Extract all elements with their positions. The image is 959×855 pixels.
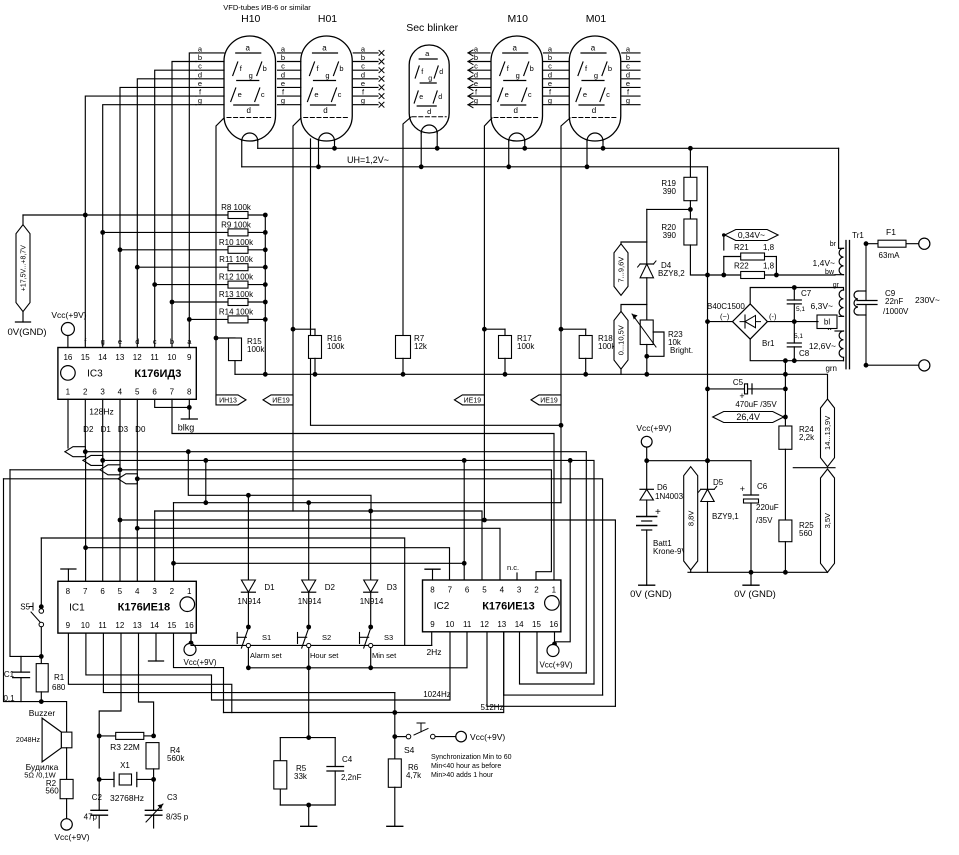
svg-text:7: 7 <box>448 586 453 595</box>
svg-text:BZY9,1: BZY9,1 <box>712 512 739 521</box>
svg-text:BZY8,2: BZY8,2 <box>658 269 685 278</box>
svg-text:13: 13 <box>133 621 142 630</box>
svg-text:a: a <box>513 44 518 53</box>
svg-text:b: b <box>608 64 612 73</box>
svg-text:9: 9 <box>66 621 71 630</box>
svg-text:g: g <box>474 96 478 105</box>
svg-text:220uF: 220uF <box>756 503 779 512</box>
svg-text:16: 16 <box>549 620 558 629</box>
svg-text:d: d <box>592 106 596 115</box>
svg-text:X1: X1 <box>120 761 130 770</box>
svg-text:C2: C2 <box>92 793 103 802</box>
svg-text:11: 11 <box>98 621 107 630</box>
svg-text:e: e <box>118 337 122 346</box>
svg-text:D1: D1 <box>264 583 275 592</box>
svg-text:g: g <box>325 71 329 80</box>
svg-text:Vcc(+9V): Vcc(+9V) <box>470 732 505 742</box>
svg-text:8: 8 <box>187 387 192 396</box>
svg-text:D2: D2 <box>83 425 94 434</box>
svg-text:1N914: 1N914 <box>298 597 322 606</box>
svg-text:Sec blinker: Sec blinker <box>406 22 458 34</box>
svg-text:b: b <box>339 64 343 73</box>
svg-text:e: e <box>505 90 509 99</box>
svg-text:1N914: 1N914 <box>360 597 384 606</box>
svg-text:8: 8 <box>66 587 71 596</box>
svg-text:12,6V~: 12,6V~ <box>809 341 836 351</box>
svg-text:Min set: Min set <box>372 651 397 660</box>
svg-text:C4: C4 <box>342 755 353 764</box>
svg-text:1,8: 1,8 <box>763 243 775 252</box>
svg-text:2: 2 <box>83 387 88 396</box>
svg-text:(~): (~) <box>720 312 730 321</box>
svg-text:D6: D6 <box>657 483 668 492</box>
svg-text:C7: C7 <box>801 289 812 298</box>
svg-text:e: e <box>361 79 365 88</box>
svg-text:D5: D5 <box>713 478 724 487</box>
svg-text:R12 100k: R12 100k <box>219 273 254 282</box>
svg-text:R9 100k: R9 100k <box>221 220 252 229</box>
svg-text:/1000V: /1000V <box>883 307 909 316</box>
svg-text:Br1: Br1 <box>762 339 775 348</box>
svg-text:63mA: 63mA <box>879 251 901 260</box>
svg-text:c: c <box>528 90 532 99</box>
svg-text:Bright.: Bright. <box>670 346 693 355</box>
svg-text:560k: 560k <box>167 754 185 763</box>
svg-text:d: d <box>439 69 443 76</box>
svg-text:1,4V~: 1,4V~ <box>813 258 835 268</box>
svg-text:5: 5 <box>135 387 140 396</box>
svg-text:33k: 33k <box>294 772 308 781</box>
svg-text:14: 14 <box>515 620 524 629</box>
svg-text:10: 10 <box>81 621 90 630</box>
svg-text:UH=1,2V~: UH=1,2V~ <box>347 155 389 165</box>
svg-text:16: 16 <box>185 621 194 630</box>
svg-text:15: 15 <box>532 620 541 629</box>
svg-text:15: 15 <box>167 621 176 630</box>
svg-text:47p: 47p <box>84 813 98 822</box>
svg-text:1: 1 <box>66 387 71 396</box>
svg-text:9: 9 <box>430 620 435 629</box>
svg-text:R3 22M: R3 22M <box>110 742 140 752</box>
svg-text:4,7k: 4,7k <box>406 771 422 780</box>
svg-text:0V (GND): 0V (GND) <box>734 589 776 600</box>
svg-text:a: a <box>591 44 596 53</box>
svg-text:F1: F1 <box>886 227 896 237</box>
svg-text:S5: S5 <box>20 603 30 612</box>
svg-text:5: 5 <box>482 586 487 595</box>
svg-text:g: g <box>249 71 253 80</box>
svg-text:g: g <box>281 96 285 105</box>
svg-text:R14 100k: R14 100k <box>219 307 254 316</box>
svg-text:+: + <box>655 507 661 518</box>
svg-text:12k: 12k <box>414 342 428 351</box>
svg-text:0V(GND): 0V(GND) <box>7 327 46 338</box>
svg-text:C5: C5 <box>733 378 744 387</box>
svg-text:a: a <box>322 44 327 53</box>
svg-text:e: e <box>583 90 587 99</box>
svg-text:e: e <box>474 79 478 88</box>
svg-text:d: d <box>323 106 327 115</box>
svg-text:g: g <box>594 71 598 80</box>
svg-text:560: 560 <box>799 529 813 538</box>
svg-text:d: d <box>438 94 442 101</box>
svg-text:d: d <box>247 106 251 115</box>
svg-text:3: 3 <box>152 587 157 596</box>
svg-text:g: g <box>548 96 552 105</box>
svg-text:10: 10 <box>445 620 454 629</box>
svg-text:26,4V: 26,4V <box>736 412 760 422</box>
svg-text:1N4003: 1N4003 <box>655 492 684 501</box>
svg-text:2,2k: 2,2k <box>799 433 815 442</box>
svg-text:390: 390 <box>663 187 677 196</box>
svg-text:e: e <box>238 90 242 99</box>
svg-text:H01: H01 <box>318 13 337 25</box>
svg-text:b: b <box>198 53 202 62</box>
svg-text:2Hz: 2Hz <box>426 647 441 657</box>
svg-text:B40C1500: B40C1500 <box>707 302 745 311</box>
svg-text:c: c <box>338 90 342 99</box>
svg-text:7: 7 <box>170 387 175 396</box>
svg-text:bl: bl <box>824 318 830 327</box>
svg-text:IC3: IC3 <box>87 369 103 380</box>
svg-text:D1: D1 <box>101 425 112 434</box>
svg-text:2: 2 <box>534 586 539 595</box>
svg-text:6,3V~: 6,3V~ <box>811 301 833 311</box>
svg-text:100k: 100k <box>327 342 345 351</box>
svg-text:C8: C8 <box>799 349 810 358</box>
svg-text:grn: grn <box>825 364 837 373</box>
svg-text:1024Hz: 1024Hz <box>423 690 451 699</box>
svg-text:16: 16 <box>63 353 72 362</box>
svg-text:10: 10 <box>167 353 176 362</box>
svg-text:g: g <box>516 71 520 80</box>
svg-text:+17,5V...+8,7V: +17,5V...+8,7V <box>21 245 28 291</box>
svg-text:14...13,9V: 14...13,9V <box>823 416 832 450</box>
svg-text:R1: R1 <box>54 673 65 682</box>
svg-text:Vcc(+9V): Vcc(+9V) <box>51 310 86 320</box>
svg-text:0,34V~: 0,34V~ <box>738 230 765 240</box>
svg-text:12: 12 <box>115 621 124 630</box>
svg-text:2,2nF: 2,2nF <box>341 773 362 782</box>
svg-text:VFD-tubes ИВ-6 or similar: VFD-tubes ИВ-6 or similar <box>223 3 311 12</box>
svg-text:8/35 p: 8/35 p <box>166 813 189 822</box>
svg-text:0,1: 0,1 <box>3 694 15 703</box>
svg-text:D3: D3 <box>118 425 129 434</box>
svg-text:11: 11 <box>150 353 159 362</box>
svg-text:b: b <box>281 53 285 62</box>
svg-text:R11 100k: R11 100k <box>219 255 254 264</box>
svg-text:g: g <box>428 76 432 83</box>
svg-text:g: g <box>101 337 105 346</box>
svg-text:390: 390 <box>663 231 677 240</box>
svg-text:Krone-9V: Krone-9V <box>653 547 687 556</box>
svg-text:S2: S2 <box>322 633 331 642</box>
svg-text:(-): (-) <box>769 312 777 321</box>
svg-text:12: 12 <box>133 353 142 362</box>
svg-text:H10: H10 <box>241 13 260 25</box>
svg-text:e: e <box>198 79 202 88</box>
svg-text:7...9,6V: 7...9,6V <box>617 257 626 283</box>
svg-text:e: e <box>314 90 318 99</box>
svg-text:blkg: blkg <box>178 423 195 433</box>
svg-text:M01: M01 <box>586 13 607 25</box>
svg-text:5: 5 <box>118 587 123 596</box>
svg-text:b: b <box>170 337 174 346</box>
svg-text:Hour set: Hour set <box>310 651 339 660</box>
svg-text:S4: S4 <box>404 745 415 755</box>
svg-text:bw: bw <box>825 269 835 276</box>
svg-text:4: 4 <box>135 587 140 596</box>
svg-text:ИЕ19: ИЕ19 <box>540 398 558 405</box>
svg-text:b: b <box>626 53 630 62</box>
svg-text:32768Hz: 32768Hz <box>110 793 144 803</box>
svg-text:R22: R22 <box>734 262 749 271</box>
svg-text:d: d <box>135 337 139 346</box>
svg-text:ИЕ19: ИЕ19 <box>272 398 290 405</box>
svg-text:b: b <box>530 64 534 73</box>
svg-text:R21: R21 <box>734 243 749 252</box>
svg-text:c: c <box>261 90 265 99</box>
svg-text:4: 4 <box>500 586 505 595</box>
svg-text:22nF: 22nF <box>885 297 903 306</box>
svg-text:0V (GND): 0V (GND) <box>630 589 672 600</box>
svg-text:9: 9 <box>187 353 192 362</box>
svg-text:b: b <box>263 64 267 73</box>
svg-text:15: 15 <box>81 353 90 362</box>
svg-text:230V~: 230V~ <box>915 295 940 305</box>
svg-text:b: b <box>474 53 478 62</box>
svg-text:S3: S3 <box>384 633 393 642</box>
svg-text:1: 1 <box>187 587 192 596</box>
svg-text:ИЕ19: ИЕ19 <box>464 398 482 405</box>
svg-text:3: 3 <box>100 387 105 396</box>
svg-text:Synchronization Min to 60: Synchronization Min to 60 <box>431 754 512 761</box>
svg-text:13: 13 <box>115 353 124 362</box>
svg-text:7: 7 <box>83 587 88 596</box>
svg-text:470uF /35V: 470uF /35V <box>735 400 777 409</box>
svg-text:D2: D2 <box>325 583 336 592</box>
svg-text:IC2: IC2 <box>434 601 450 612</box>
svg-text:5,1: 5,1 <box>796 306 805 313</box>
svg-text:14: 14 <box>150 621 159 630</box>
svg-text:5,1: 5,1 <box>794 333 803 340</box>
svg-text:g: g <box>626 96 630 105</box>
svg-text:e: e <box>548 79 552 88</box>
svg-text:f: f <box>421 69 423 76</box>
svg-text:ИН13: ИН13 <box>219 398 237 405</box>
svg-text:b: b <box>361 53 365 62</box>
svg-text:Tr1: Tr1 <box>852 231 864 240</box>
svg-text:Vcc(+9V): Vcc(+9V) <box>183 658 216 667</box>
svg-text:4: 4 <box>118 387 123 396</box>
svg-text:d: d <box>427 107 431 116</box>
svg-text:8: 8 <box>430 586 435 595</box>
svg-text:g: g <box>361 96 365 105</box>
svg-text:14: 14 <box>98 353 107 362</box>
svg-text:0...10,5V: 0...10,5V <box>617 325 626 355</box>
svg-text:1N914: 1N914 <box>237 597 261 606</box>
svg-text:560: 560 <box>45 787 59 796</box>
svg-text:2: 2 <box>170 587 175 596</box>
svg-text:2048Hz: 2048Hz <box>16 737 41 744</box>
svg-text:3,5V: 3,5V <box>823 513 832 528</box>
svg-text:6: 6 <box>100 587 105 596</box>
svg-text:M10: M10 <box>508 13 529 25</box>
svg-text:1: 1 <box>552 586 557 595</box>
svg-text:R10 100k: R10 100k <box>219 238 254 247</box>
svg-text:g: g <box>198 96 202 105</box>
svg-text:3: 3 <box>517 586 522 595</box>
svg-text:8,8V: 8,8V <box>686 511 695 526</box>
svg-text:D3: D3 <box>387 583 398 592</box>
svg-text:e: e <box>419 94 423 101</box>
svg-text:Vcc(+9V): Vcc(+9V) <box>539 661 572 670</box>
svg-text:d: d <box>514 106 518 115</box>
svg-text:Min<40 hour as before: Min<40 hour as before <box>431 763 501 770</box>
svg-text:a: a <box>246 44 251 53</box>
svg-text:6: 6 <box>465 586 470 595</box>
svg-text:К176ИД3: К176ИД3 <box>134 368 181 380</box>
svg-text:R8 100k: R8 100k <box>221 203 252 212</box>
svg-text:Min>40 adds 1 hour: Min>40 adds 1 hour <box>431 772 494 779</box>
svg-text:512Hz: 512Hz <box>480 703 503 712</box>
svg-text:n.c.: n.c. <box>507 563 519 572</box>
svg-text:Vcc(+9V): Vcc(+9V) <box>636 423 671 433</box>
svg-text:C1: C1 <box>4 670 15 679</box>
svg-text:11: 11 <box>463 620 472 629</box>
svg-text:6: 6 <box>152 387 157 396</box>
svg-text:b: b <box>548 53 552 62</box>
svg-text:128Hz: 128Hz <box>89 407 114 417</box>
svg-text:1,8: 1,8 <box>763 262 775 271</box>
svg-text:C6: C6 <box>757 482 768 491</box>
svg-text:Buzzer: Buzzer <box>29 708 56 718</box>
svg-text:e: e <box>281 79 285 88</box>
svg-text:12: 12 <box>480 620 489 629</box>
svg-text:D0: D0 <box>135 425 146 434</box>
svg-text:br: br <box>830 241 837 248</box>
svg-text:Alarm set: Alarm set <box>250 651 283 660</box>
svg-text:+: + <box>740 484 745 494</box>
svg-text:e: e <box>626 79 630 88</box>
svg-text:C3: C3 <box>167 793 178 802</box>
svg-text:680: 680 <box>52 683 66 692</box>
svg-text:100k: 100k <box>517 342 535 351</box>
svg-text:100k: 100k <box>247 345 265 354</box>
svg-text:IC1: IC1 <box>69 602 85 613</box>
svg-text:R13 100k: R13 100k <box>219 290 254 299</box>
svg-text:/35V: /35V <box>756 516 773 525</box>
svg-text:13: 13 <box>497 620 506 629</box>
svg-text:c: c <box>606 90 610 99</box>
svg-text:К176ИЕ18: К176ИЕ18 <box>118 602 171 614</box>
svg-text:S1: S1 <box>262 633 271 642</box>
svg-text:Vcc(+9V): Vcc(+9V) <box>54 832 89 842</box>
svg-text:c: c <box>153 337 157 346</box>
svg-text:К176ИЕ13: К176ИЕ13 <box>482 600 535 612</box>
